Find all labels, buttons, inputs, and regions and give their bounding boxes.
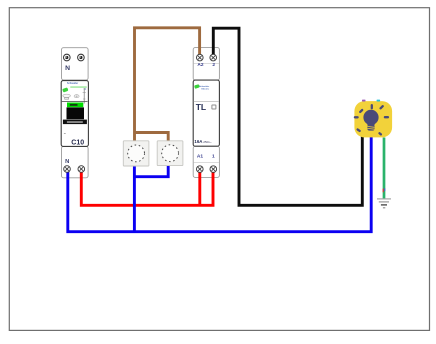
svg-text:Schneider: Schneider: [67, 83, 78, 85]
svg-text:16A: 16A: [194, 139, 203, 144]
svg-text:2: 2: [212, 62, 215, 68]
svg-text:1: 1: [212, 153, 215, 159]
svg-text:Schneider: Schneider: [199, 85, 209, 88]
svg-text:C10: C10: [71, 139, 84, 146]
svg-text:TL: TL: [196, 102, 206, 112]
svg-text:N: N: [65, 159, 69, 165]
svg-text:A1: A1: [197, 153, 203, 159]
svg-text:Electric: Electric: [201, 88, 209, 91]
svg-text:A2: A2: [197, 62, 203, 68]
svg-text:N: N: [65, 65, 70, 72]
svg-text:250v~: 250v~: [203, 140, 212, 144]
